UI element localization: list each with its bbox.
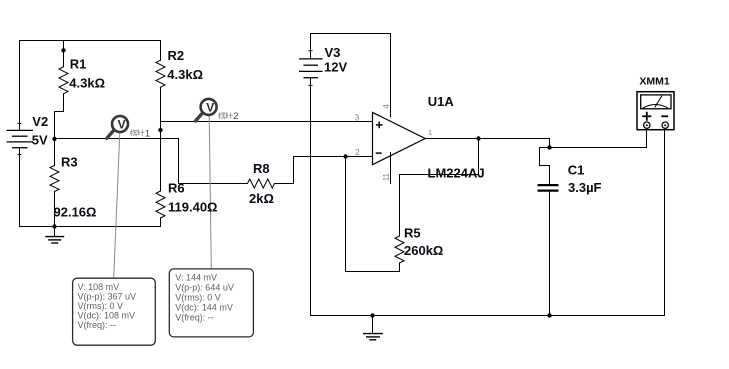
wire R8 right lead up to pin2 wire [275,157,373,184]
svg-text:V(freq): --: V(freq): -- [175,313,214,323]
value 3.3µF [568,180,602,195]
wire R3 bottom lead [54,192,56,227]
svg-text:4.3kΩ: 4.3kΩ [69,75,105,90]
svg-text:U1A: U1A [428,94,455,109]
wire R2 branch upper [160,41,162,61]
svg-text:4: 4 [382,104,391,109]
wire R2 bottom to R6 top [160,87,162,191]
svg-text:V: V [118,117,126,131]
wire op-amp output [425,139,550,148]
wire R3 top lead [54,139,56,166]
probe 1 leader line [114,133,120,278]
probe 1 readout box [73,278,156,345]
wire ground rail [311,315,665,317]
pin number 1 [428,128,432,137]
ground (center, under op-amp) [363,316,383,340]
svg-text:V(freq): --: V(freq): -- [78,320,117,330]
node ground-left junction dot [52,224,56,228]
wire C1 bottom lead [549,192,551,316]
label R8 [253,161,270,176]
resistor R5 [395,236,404,263]
node ground junction dot [370,313,374,317]
ground (left, under R3) [45,227,64,244]
label V3 [325,45,341,60]
svg-text:V2: V2 [32,114,48,129]
resistor R6 [156,191,165,218]
wire R5 bottom loop to inverting node [346,157,400,272]
probe 2 label 探针2 [218,111,238,122]
svg-text:R5: R5 [404,226,421,241]
wire mid rail node A to R8 step [55,139,248,184]
wire R6 bottom lead [160,218,162,227]
wire V3 to op-amp pin4 [311,34,391,117]
node B R2/R6 junction dot (probe 2) [158,128,162,132]
pin number 11 (rotated) [382,172,391,181]
svg-text:LM224AJ: LM224AJ [428,166,485,181]
value 4.3kΩ (R1) [69,75,105,90]
probe 2 leader line [209,116,211,269]
pin number 3 [355,113,360,122]
value 5V [32,132,48,147]
svg-text:V(rms): 0 V: V(rms): 0 V [78,301,124,311]
svg-text:R2: R2 [168,48,185,63]
svg-text:5V: 5V [32,132,48,147]
svg-text:3: 3 [355,113,360,122]
svg-text:R1: R1 [70,57,87,72]
label R6 [168,180,185,195]
value 92.16Ω [54,205,97,220]
svg-text:V(rms): 0 V: V(rms): 0 V [175,293,221,303]
svg-text:V3: V3 [325,45,341,60]
node C1 bottom junction dot [547,313,551,317]
resistor R3 [50,166,59,192]
label R2 [168,48,185,63]
label R1 [70,57,87,72]
svg-text:2: 2 [233,111,238,122]
svg-text:R6: R6 [168,180,185,195]
value 4.3kΩ (R2) [167,67,203,82]
wire feedback horizontal [400,174,479,176]
wire op-amp pin11 stub [390,153,392,184]
svg-text:92.16Ω: 92.16Ω [54,205,97,220]
wire R1 bottom lead with jog [55,94,64,139]
svg-text:11: 11 [382,172,391,181]
wire C1 S-jog from output node [540,148,550,185]
svg-text:V(p-p): 644 uV: V(p-p): 644 uV [175,283,234,293]
pin number 2 [355,148,360,157]
label XMM1 [639,75,669,87]
multimeter XMM1 [637,92,674,130]
node inverting input junction dot [343,154,347,158]
svg-text:12V: 12V [324,59,347,74]
svg-text:V(dc): 108 mV: V(dc): 108 mV [78,311,136,321]
battery V2 [7,123,34,154]
value 2kΩ [249,191,274,206]
label U1A [428,94,455,109]
value 119.40Ω [168,199,217,214]
wire V3 bottom lead down to ground rail [310,78,312,316]
op-amp U1A triangle [373,112,426,164]
svg-text:4.3kΩ: 4.3kΩ [167,67,203,82]
node A R1/R3 junction dot (probe 1) [52,137,56,141]
svg-text:XMM1: XMM1 [639,75,669,87]
svg-text:V(dc): 144 mV: V(dc): 144 mV [175,303,233,313]
node feedback junction dot on output wire [476,136,480,140]
part LM224AJ [428,166,485,181]
wire top rail V2 to R2 [20,40,161,42]
value 12V [324,59,347,74]
svg-text:3.3µF: 3.3µF [568,180,602,195]
probe 2 readout box [169,269,253,337]
svg-text:1: 1 [145,128,150,139]
label R3 [61,154,78,169]
wire V3 top lead [310,34,312,59]
svg-text:R8: R8 [253,161,270,176]
svg-text:2kΩ: 2kΩ [249,191,274,206]
probe 1 label 探针1 [130,128,150,139]
wire probe2 net to op-amp pin3 [161,121,373,123]
wire R1 top lead [63,41,65,67]
wire left rail V2 top lead [19,41,21,131]
node output/C1 junction dot [547,145,551,149]
svg-text:R3: R3 [61,154,78,169]
svg-text:260kΩ: 260kΩ [404,243,443,258]
svg-text:1: 1 [428,128,432,137]
label V2 [32,114,48,129]
svg-text:C1: C1 [568,163,585,178]
pin number 4 (rotated) [382,104,391,109]
svg-text:V(p-p): 367 uV: V(p-p): 367 uV [78,292,137,302]
wire output to XMM1 plus [550,129,647,148]
value 260kΩ [404,243,443,258]
capacitor C1 [538,185,559,191]
wire bottom-left rail [20,226,161,228]
probe 1 icon (magnifier V) [107,116,128,138]
resistor R2 [156,60,165,87]
resistor R1 [59,67,68,94]
svg-text:V: 144 mV: V: 144 mV [175,273,217,283]
node R1 top junction dot [61,48,65,52]
resistor R8 (horizontal) [248,179,275,188]
label C1 [568,163,585,178]
wire feedback vertical from output [478,139,480,175]
svg-text:119.40Ω: 119.40Ω [168,199,217,214]
wire V2 bottom lead [19,148,21,227]
battery V3 [299,51,323,86]
probe 2 icon (magnifier V) [195,99,216,121]
svg-text:V: 108 mV: V: 108 mV [78,282,120,292]
svg-text:2: 2 [355,148,360,157]
wire R5 top lead [399,175,401,237]
label R5 [404,226,421,241]
svg-text:V: V [206,100,214,114]
wire XMM1 minus lead [664,129,666,316]
